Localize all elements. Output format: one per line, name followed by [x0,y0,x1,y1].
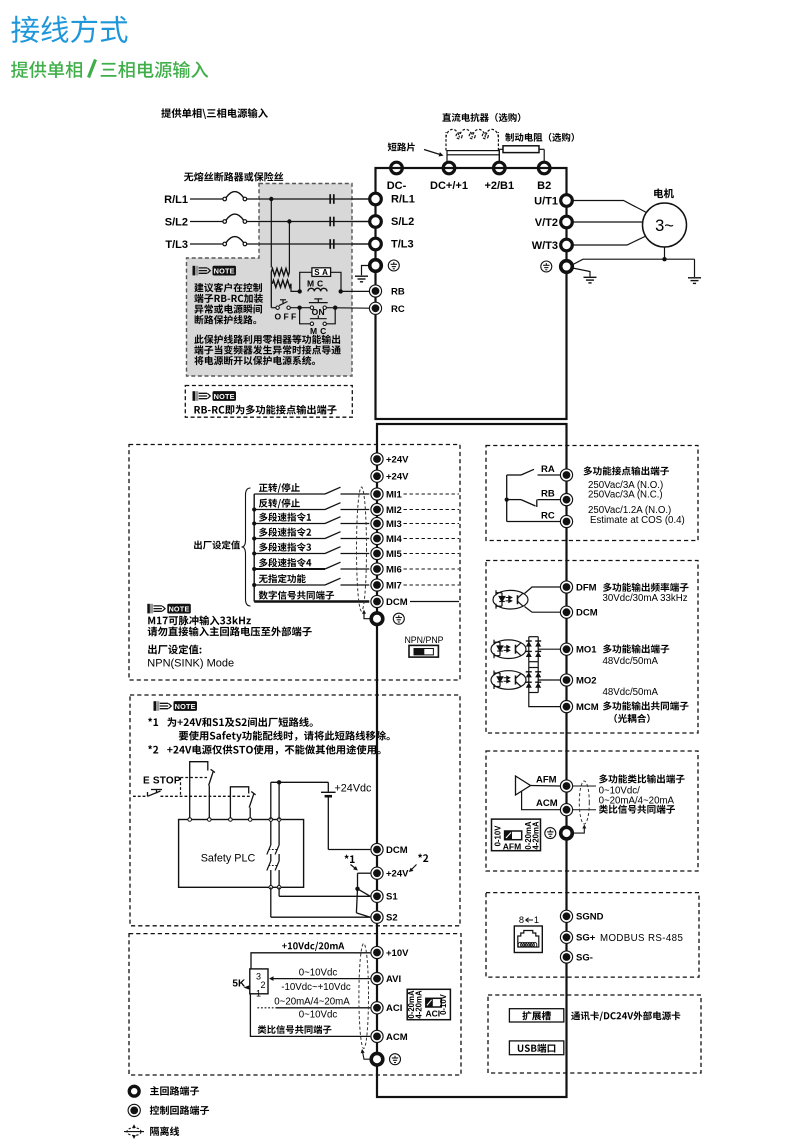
legend control terminal [128,1104,140,1116]
svg-text:0~10Vdc: 0~10Vdc [299,967,338,978]
potentiometer box [250,969,268,994]
optocoupler MO2 [491,671,526,690]
wire to terminal MI2 [341,509,370,511]
note 主回路电压 [148,627,158,637]
terminal MO2 [560,674,572,686]
dashed stub MI7 [404,584,460,586]
PLC pin top [248,818,252,822]
wire to terminal MI3 [341,523,370,525]
svg-text:M C: M C [310,326,326,336]
terminal DFM [560,581,572,593]
wire to OFF contact [271,307,276,309]
terminal U/T1 [561,195,573,207]
arrow 8-1 [526,918,534,922]
svg-text:+2/B1: +2/B1 [484,180,514,192]
dashed box analog output [486,751,698,871]
wire 24V rail [271,781,329,783]
bridge link MO1-MO2 [528,662,530,668]
RJ45 inner shape [518,931,539,948]
wire segment in grey box [259,221,369,223]
svg-text:U/T1: U/T1 [534,196,558,208]
PLC pin top [229,818,233,822]
terminal PE analog [371,1053,383,1065]
note1b line 1 [194,335,203,344]
terminal DCM sto [371,843,383,855]
note2 text [194,406,200,414]
switch blade MI3 [325,517,341,524]
label *2 [418,854,422,858]
wire SA to coil right [331,272,341,291]
note1 line 1 [194,283,203,292]
NOTE icon digital [147,604,191,614]
svg-text:0-10V: 0-10V [439,993,448,1015]
legend 控制回路端子 [150,1105,159,1114]
jumper to S1 [358,889,371,897]
svg-text:RC: RC [541,511,555,522]
dashed box digital outputs [486,561,698,734]
junction R/L1 [269,197,273,201]
terminal MI3 [371,517,383,529]
junction motor ground [662,257,666,261]
label *2 note [148,745,152,749]
svg-text:T/L3: T/L3 [391,239,414,251]
svg-text:DFM: DFM [576,582,597,593]
wire PLC to S2 [270,887,272,917]
optocoupler MO1 [491,640,526,659]
svg-text:ACM: ACM [386,1032,408,1043]
label MI3 function [259,513,268,522]
PLC pin top [188,818,192,822]
label MI2 function [259,499,268,508]
PE ground hook [362,266,370,276]
svg-text:+10V: +10V [386,948,409,959]
battery long plate [321,791,336,793]
terminal +10V [371,946,383,958]
terminal MI2 [371,503,383,515]
shield arrow AFM [574,828,585,833]
DC reactor coil 直流电抗器 [446,129,498,150]
svg-text:MO1: MO1 [576,645,597,656]
diagram caption [161,108,171,118]
label MI7 function [259,575,268,583]
wire MI4 [254,538,325,540]
breaker T/L3 [223,242,247,246]
top rail [376,167,567,169]
braking resistor stubs [498,149,500,162]
label 制动电阻 [505,133,514,142]
wire R-phase down [270,199,272,268]
wire MI5 [254,553,325,555]
svg-text:MI5: MI5 [386,549,403,560]
MC aux contact right leg [326,308,335,324]
terminal MI7 [371,579,383,591]
legend shield symbol [127,1128,141,1136]
junction MI6 [252,567,256,571]
wire opto to DCM out [525,607,561,613]
svg-text:S/L2: S/L2 [391,216,414,228]
label 短路片 [388,143,397,152]
PLC internal wire A [270,821,272,845]
svg-text:5K: 5K [232,979,246,990]
terminal W/T3 [561,239,573,251]
PE ground circle output [541,261,552,272]
resistor R2 [272,280,291,287]
svg-text:V/T2: V/T2 [535,217,558,229]
svg-text:MI6: MI6 [386,564,402,575]
wire +10V [251,953,370,969]
svg-text:ACI: ACI [425,1008,440,1018]
terminal MI1 [371,488,383,500]
terminal RB [369,285,381,297]
terminal RC [369,302,381,314]
legend 隔离线 [150,1127,159,1136]
svg-text:MODBUS RS-485: MODBUS RS-485 [600,933,683,944]
note sto line2 [179,731,188,740]
wire to MO2 [538,679,560,681]
OFF switch blade+handle [279,302,288,306]
safety contact1 lower [208,786,210,820]
AFM dip slot [505,831,522,840]
svg-text:MO2: MO2 [576,675,597,686]
terminal PE AFM [561,827,573,839]
svg-text:AFM: AFM [536,774,557,785]
switch blade MI2 [325,503,341,510]
switch blade MI5 [325,547,341,554]
junction S/L2 [287,219,291,223]
svg-text:NOTE: NOTE [168,604,189,613]
svg-text:B2: B2 [537,180,551,192]
terminal DCM [371,595,383,607]
svg-text:4-20mA: 4-20mA [532,821,541,850]
inverter main box [376,168,567,419]
subtitle 提供单相/三相电源输入 [11,61,28,78]
note 出厂设定值: [148,645,156,655]
text 类比信号共同端子 AFM [599,805,608,814]
wire coil to RB terminal [341,290,370,292]
svg-text:ACM: ACM [536,798,558,809]
terminal SGND [560,910,572,922]
svg-text:RA: RA [541,464,555,475]
svg-text:S2: S2 [386,913,398,924]
terminal AFM [560,780,572,792]
ground circle analog [390,1054,401,1065]
terminal MI6 [371,563,383,575]
ACI dip slot [426,998,442,1007]
switch blade MI1 [325,487,341,494]
switch knob [414,649,424,655]
text 多功能接点输出端子 [584,466,593,475]
battery bottom lead [327,796,329,849]
contactor coil MC [308,288,327,291]
safety contact1 blade [209,772,214,786]
svg-text:MI3: MI3 [386,519,402,530]
wire to terminal MI5 [341,553,370,555]
wire to terminal MI7 [341,584,370,586]
svg-text:ON: ON [312,307,325,317]
svg-text:M C: M C [307,279,323,289]
label *1 [345,855,349,859]
shield ellipse analog [359,944,369,1049]
svg-text:RB: RB [541,489,555,500]
terminal DC- [391,162,403,174]
terminal SG+ [560,931,572,943]
fuse/cap symbol [329,194,331,204]
wire resistor to MC coil node [291,284,300,292]
svg-text:DCM: DCM [386,597,408,608]
label 类比信号共同端子 input [258,1025,267,1034]
rail left stub [375,168,377,172]
pot icon [244,985,250,989]
svg-text:+24V: +24V [386,869,409,880]
NPN/PNP switch box [409,645,438,657]
label +10Vdc/20mA [282,943,287,948]
terminal S/L2 [370,216,382,228]
RJ45 pin coils [518,942,537,947]
dashed box analog inputs [129,934,461,1075]
wire DCM thick [254,600,369,602]
wire to terminal MI1 [341,493,370,495]
safety contact2 lower [249,808,251,820]
brace 出厂设定值 [242,488,251,606]
svg-text:+24Vdc: +24Vdc [335,783,373,795]
switch blade MI7 [325,578,341,585]
label MI5 function [259,543,268,552]
svg-text:O F F: O F F [275,312,297,322]
ON pushbutton contacts [310,306,326,309]
grey protection-circuit note box [187,184,353,377]
safety contact1 frame [190,762,208,820]
terminal RA [560,469,572,481]
terminal DCM out [560,606,572,618]
optocoupler DFM [493,590,528,609]
svg-text:48Vdc/50mA: 48Vdc/50mA [603,687,659,698]
wire S-phase down [288,222,290,273]
terminal PE control [371,613,383,625]
ground circle control [393,613,404,624]
AFM switch box [492,819,541,851]
svg-text:R/L1: R/L1 [391,194,415,206]
text AFM function [599,774,608,783]
arrow to jumper [424,150,440,155]
label MI6 function [259,558,268,567]
junction MC aux right top [333,306,337,310]
svg-text:MI2: MI2 [386,505,402,516]
svg-text:0~20mA/4~20mA: 0~20mA/4~20mA [599,795,675,806]
wire to terminal MI4 [341,538,370,540]
note1 line 4 [195,315,204,324]
junction MI7 [252,583,256,587]
terminal +24V sto [371,867,383,879]
shield drain arrow [364,614,371,619]
junction MI2 [252,507,256,511]
relay common rail [506,475,508,522]
svg-text:S1: S1 [386,892,398,903]
terminal RB relay [560,494,572,506]
note1b line 3 [194,356,203,365]
junction RB relay [505,498,509,502]
svg-text:NOTE: NOTE [175,702,196,711]
terminal RC relay [560,515,572,527]
label 电机 [654,188,663,198]
PLC internal contact blades [275,845,279,855]
battery top lead [327,782,329,791]
PLC pin bottom [269,886,273,890]
Safety PLC box [179,820,304,888]
wire MI2 [254,509,325,511]
wire RC [507,521,560,523]
svg-text:2: 2 [261,980,266,990]
wire to OFF switch [270,272,272,308]
junction MC coil right [339,289,343,293]
note1 line 2 [194,294,203,303]
dashed box relay output [486,446,698,541]
label MI1 function [259,484,268,492]
label *1 note [148,718,152,722]
label DCM function [259,591,268,600]
wire ON to RC terminal [326,307,369,310]
wire breaker to terminal T/L3 [247,243,369,245]
wire ACI [276,1007,370,1009]
dashed stub MI5 [404,553,460,555]
estop contact lead [133,795,148,797]
resistor R1 [271,268,289,275]
svg-text:R/L1: R/L1 [164,194,188,206]
wire MI6 [254,568,325,570]
svg-text:250Vac/3A (N.C.): 250Vac/3A (N.C.) [588,490,663,501]
wire breaker to terminal R/L1 [247,198,369,200]
svg-text:DC+/+1: DC+/+1 [430,180,468,192]
PLC pin top [208,818,212,822]
RA contact N.O. [507,474,521,476]
label 直流电抗器 [442,113,451,122]
switch slot [414,649,433,655]
terminal B2 [538,162,550,174]
OFF switch contacts [276,306,290,309]
estop dashed link [161,795,252,797]
wire ACM [250,994,370,1037]
svg-text:1: 1 [256,989,261,999]
estop blade [148,791,161,796]
terminal ACM [371,1030,383,1042]
label 通讯卡 [571,1011,580,1020]
NOTE box RB-RC [185,386,352,418]
junction MI4 [252,536,256,540]
wire to MO1 [538,648,560,650]
wire W/T3 to motor [572,236,646,245]
legend 主回路端子 [150,1086,159,1095]
wire common to MCM [529,693,560,707]
PLC internal wire B [278,821,280,845]
amplifier AFM [516,776,531,795]
MC aux contact left leg [300,308,311,324]
wire OFF to ON [290,307,310,309]
wire battery to DCM [328,849,370,851]
note1 line 3 [194,305,203,314]
shield ellipse AFM [579,781,589,824]
motor circle [643,203,687,247]
wire breaker to terminal S/L2 [247,221,369,223]
terminal T/L3 [370,238,382,250]
AFM dip knob [505,831,512,840]
wire ACI dotted [257,1007,276,1009]
svg-text:MI7: MI7 [386,580,402,591]
svg-text:T/L3: T/L3 [165,239,188,251]
shield ellipse digital [357,487,367,611]
terminal ACM out [560,804,572,816]
svg-text:RC: RC [391,304,405,315]
fuse/cap symbol [329,217,331,227]
note sto line3 [167,747,172,752]
MC aux contacts [310,322,326,325]
wire MI7 [254,584,325,586]
page title 接线方式 [11,16,39,43]
wires PLC to 24V rail [270,782,272,819]
ON pushbutton actuator [309,302,328,304]
text MO1 function [603,644,612,653]
note1b line 2 [194,345,203,354]
wire segment in grey box [259,198,369,200]
label 扩展槽 [522,1011,531,1020]
terminal MCM [560,701,572,713]
jumper bar 短路片 [447,151,499,155]
svg-text:DC-: DC- [387,180,407,192]
svg-text:NOTE: NOTE [214,392,235,401]
arrow *2 [412,865,417,870]
svg-text:Safety PLC: Safety PLC [201,853,256,865]
svg-text:30Vdc/30mA 33kHz: 30Vdc/30mA 33kHz [603,593,688,604]
USB box [509,1041,563,1055]
note M17 [148,617,155,625]
dashed box digital inputs [129,445,460,681]
svg-text:SGND: SGND [576,912,604,923]
braking resistor 制动电阻 [503,146,539,153]
terminal PE output [561,261,573,273]
wire segment in grey box [259,243,369,245]
surge absorber SA box [312,268,331,277]
wire R/L1 to breaker [190,198,223,200]
PLC pin top [269,818,273,822]
svg-text:NOTE: NOTE [214,266,235,275]
terminal S2 [371,911,383,923]
stub DCM right [410,601,459,603]
terminal ACI [371,1002,383,1014]
svg-text:NPN(SINK) Mode: NPN(SINK) Mode [147,657,234,669]
wire AVI with wiper arrow [273,978,371,980]
text 光耦合 [614,714,617,723]
dashed stub MI4 [404,538,460,540]
jumper stubs [446,155,448,163]
NOTE icon 1 [193,266,237,276]
svg-text:W/T3: W/T3 [532,240,558,252]
junction MC coil left [298,289,302,293]
digital input common rail [253,494,255,602]
junction 24V rail [277,780,281,784]
legend main terminal [129,1086,139,1096]
ACI switch box [407,989,450,1019]
junction jumper [355,887,359,891]
wire to terminal MI6 [341,568,370,570]
svg-text:DCM: DCM [386,845,408,856]
terminal SG- [560,951,572,963]
ground circle AFM [545,828,556,839]
svg-text:SG+: SG+ [576,933,596,944]
wire U/T1 to motor [572,201,646,213]
ground wire horizontal [583,258,695,260]
label 无熔丝断路器或保险丝 [184,173,193,182]
svg-text:Estimate at COS (0.4): Estimate at COS (0.4) [590,515,685,526]
diode bridge MO2 [526,668,541,693]
terminal +24V a [371,453,383,465]
